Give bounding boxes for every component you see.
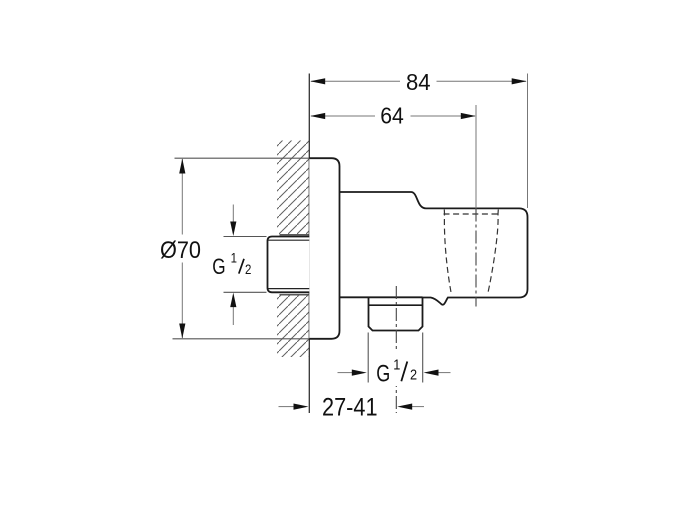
dim G1/2 outlet text white backing — [373, 352, 419, 386]
wall face line — [308, 74, 310, 414]
wall hole edge lines — [280, 235, 310, 295]
svg-text:G: G — [376, 361, 390, 387]
extension line bottom (Ø70 / flange bottom) — [173, 338, 310, 340]
dim G1/2 inlet top arrow — [232, 205, 234, 228]
outlet centerline — [395, 286, 397, 413]
dim 64 line — [311, 115, 475, 117]
flange (escutcheon) — [309, 158, 339, 339]
outlet union — [369, 297, 423, 330]
outlet union shoulder line — [369, 304, 423, 306]
dim G1/2 outlet right arrow — [439, 372, 451, 374]
svg-text:G: G — [212, 255, 225, 280]
svg-text:2: 2 — [245, 262, 251, 277]
svg-text:Ø70: Ø70 — [160, 237, 201, 264]
dim Ø70 arrows — [179, 159, 185, 174]
dim 84 extension right — [527, 74, 529, 209]
dim G1/2 outlet extension lines — [368, 333, 423, 383]
holder hole centerline extension (64 dim) — [475, 105, 477, 209]
svg-text:1: 1 — [393, 355, 400, 372]
dim G1/2 inlet text — [212, 251, 251, 280]
wall hole white gap — [276, 234, 310, 296]
holder hole hidden top edge — [444, 213, 499, 215]
inlet union — [268, 237, 310, 293]
dim 27-41 line left arrow — [279, 406, 295, 408]
holder hole hidden right edge — [488, 210, 499, 296]
holder hole centerline — [475, 209, 477, 307]
inlet union thread lines — [269, 240, 310, 288]
svg-text:27-41: 27-41 — [322, 393, 378, 421]
dim Ø70 line — [181, 159, 183, 338]
dim G1/2 outlet text — [376, 355, 417, 387]
extension line top (Ø70 / flange top) — [175, 157, 310, 159]
svg-text:1: 1 — [231, 251, 237, 266]
dim G1/2 inlet bottom arrow — [232, 303, 234, 325]
body outline — [340, 192, 528, 305]
dim G1/2 inlet extension lines — [224, 237, 267, 293]
dim 64 arrows — [310, 113, 325, 119]
svg-text:2: 2 — [410, 365, 417, 382]
svg-text:84: 84 — [406, 69, 431, 95]
dim 84 line — [311, 80, 526, 82]
body bottom line left of outlet — [340, 296, 369, 298]
dim 84 arrows — [310, 78, 325, 84]
holder hole hidden left edge — [444, 210, 451, 296]
svg-text:64: 64 — [380, 103, 404, 129]
dim G1/2 outlet left arrow — [338, 372, 353, 374]
dim 27-41 right arrow — [412, 406, 424, 408]
wall hatching — [277, 141, 309, 358]
outlet union top edge (body bottom across union) — [369, 296, 423, 298]
